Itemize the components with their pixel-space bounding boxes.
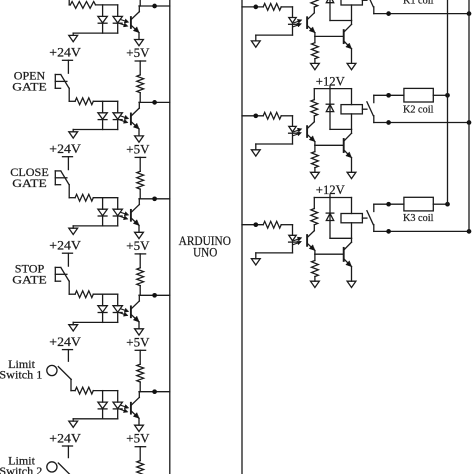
ground (stage 2 input) [72,130,74,132]
supply bus 2 [468,0,470,231]
wire switch-to-resistor (stage 4) [69,293,75,295]
wire arduino output (K3 driver) [242,224,263,226]
svg-text:Switch 1: Switch 1 [0,368,42,382]
wire resistor-to-optocoupler (stage 4) [93,293,117,295]
ground (stage 1 emitter) [135,40,144,46]
optocoupler LED (stage 5) [117,391,119,403]
svg-text:GATE: GATE [12,274,47,286]
wire contact top (K2) [374,94,404,96]
resistor collector load (K3) [313,198,315,209]
wire to optocoupler (K2) [281,115,292,117]
resistor 24V input (stage 5) [75,387,93,394]
ground (K1 transistor) [347,63,356,69]
wire LED return (stage 4) [73,321,118,323]
relay contact K1 [367,0,373,7]
pull-up resistor +5V (stage 3) [139,157,141,171]
optocoupler LED (K2) [292,116,294,126]
svg-text:GATE: GATE [12,178,47,190]
wire switch-to-resistor (stage 3) [69,197,75,199]
wire +12V rail (K3) [329,195,331,198]
wire emitter-to-base (K2) [315,144,344,146]
wire contact bottom (K3) [374,230,469,232]
wire resistor-to-optocoupler (stage 1) [96,4,118,6]
ground (K3 resistor) [311,281,320,287]
wire LED return (K2) [256,143,293,145]
flyback diode (K1) [329,0,331,21]
wire coil bottom rail (K2) [330,128,352,130]
pull-up resistor +5V (stage 6) [139,447,141,461]
svg-text:K1 coil: K1 coil [403,0,434,6]
pushbutton switch (stage 4) [67,253,69,266]
resistor base drive (K1) [263,4,281,11]
svg-text:K3 coil: K3 coil [403,212,434,224]
ground (K3 transistor) [347,281,356,287]
wire collector-to-arduino (stage 1) [139,5,170,7]
resistor base-emitter (K1) [314,36,316,42]
ground (K1 resistor) [311,63,320,69]
relay coil K3 (driver side) [351,198,353,214]
ground (K2 transistor) [347,172,356,178]
protection diode (stage 5) [102,391,104,403]
resistor base drive (K3) [263,221,281,228]
wire coil-to-bus1 (K2) [433,94,447,96]
svg-text:K2 coil: K2 coil [403,103,434,115]
svg-text:+5V: +5V [126,335,149,349]
protection diode (stage 4) [102,294,104,306]
resistor base-emitter (K3) [314,254,316,260]
transistor driver (K1) [343,30,345,43]
wire emitter-to-base (K1) [315,35,344,37]
pull-up resistor +5V (stage 5) [139,350,141,364]
svg-text:Switch 2: Switch 2 [0,464,42,474]
transistor driver (K2) [343,139,345,152]
resistor collector load (K2) [313,89,315,100]
svg-text:+5V: +5V [126,46,149,60]
protection diode (stage 3) [102,198,104,210]
node contact top (K2) [386,93,391,98]
ground (K2 resistor) [311,172,320,178]
node collector junction (stage 2) [152,100,157,105]
optocoupler phototransistor (stage 3) [130,210,132,221]
svg-text:+5V: +5V [126,239,149,253]
wire coil-to-bus1 (K3) [433,203,447,205]
mechanical link (K2 contact) [362,108,367,110]
wire LED return (stage 5) [73,418,118,420]
ground (stage 3 emitter) [135,232,144,238]
wire LED return (stage 1) [73,32,118,34]
relay contact K3 [367,211,373,225]
wire LED return (stage 2) [73,129,118,131]
wire contact top (K3) [374,203,404,205]
node arduino output (K2) [253,113,258,118]
ground (K3 LED) [255,253,257,259]
optocoupler LED (K3) [292,225,294,235]
wire resistor-to-optocoupler (stage 2) [93,100,117,102]
optocoupler phototransistor (K1) [306,17,308,28]
wire resistor-to-optocoupler (stage 5) [93,390,117,392]
pull-up resistor +5V (stage 2) [139,61,141,75]
optocoupler LED (stage 3) [117,198,119,210]
wire contact bottom (K1) [374,13,469,15]
node bus2 junction (K3) [467,229,472,234]
node contact bottom (K1) [386,11,391,16]
wire collector-to-arduino (stage 2) [139,101,170,103]
wire LED return (K3) [256,252,293,254]
wire emitter-to-base (K3) [315,253,344,255]
limit switch (stage 5) [67,350,69,362]
wire +12V rail (K2) [329,86,331,89]
wire coil bottom rail (K3) [330,237,352,239]
supply bus 1 [447,0,449,204]
relay coil K2 (load circuit) [404,88,433,102]
svg-text:+24V: +24V [49,431,81,445]
wire switch-to-resistor (stage 1) [69,4,70,6]
ground (stage 5 input) [72,419,74,421]
svg-text:+24V: +24V [49,335,81,349]
relay coil K2 (driver side) [351,89,353,105]
svg-text:+5V: +5V [126,142,149,156]
node collector junction (stage 3) [152,196,157,201]
optocoupler LED (stage 2) [117,101,119,113]
transistor driver (K3) [343,248,345,261]
ground (K2 LED) [255,144,257,150]
wire switch-to-resistor (stage 2) [69,100,75,102]
node bus2 junction (K2) [467,120,472,125]
node bus2 junction (K1) [467,11,472,16]
node collector junction (stage 5) [152,389,157,394]
resistor base-emitter (K2) [314,145,316,151]
mechanical link (K1 contact) [362,0,367,1]
wire contact bottom (K2) [374,122,469,124]
wire resistor-to-optocoupler (stage 3) [93,197,117,199]
resistor base drive (K2) [263,112,281,119]
resistor 24V input (stage 1) [70,2,95,9]
svg-text:GATE: GATE [12,82,47,94]
wire LED return (stage 3) [73,225,118,227]
node arduino output (K1) [253,5,258,10]
wire arduino output (K2 driver) [242,115,263,117]
ARDUINO UNO block [170,0,242,474]
resistor 24V input (stage 4) [75,291,93,298]
svg-text:+24V: +24V [49,142,81,156]
optocoupler phototransistor (stage 5) [130,403,132,414]
node bus1 junction (K2) [445,93,450,98]
svg-text:+5V: +5V [126,432,149,446]
resistor 24V input (stage 3) [75,194,93,201]
wire collector-to-arduino (stage 3) [139,198,170,200]
relay coil K3 (load circuit) [404,197,433,211]
svg-text:UNO: UNO [193,246,217,260]
wire to optocoupler (K3) [281,224,292,226]
node collector junction (stage 4) [152,293,157,298]
optocoupler phototransistor (stage 2) [130,114,132,125]
node contact bottom (K2) [386,120,391,125]
relay contact K2 [367,102,373,116]
wire collector-to-arduino (stage 4) [139,294,170,296]
limit switch (stage 6) [67,446,69,458]
wire collector-to-arduino (stage 5) [139,391,170,393]
ground (stage 2 emitter) [135,136,144,142]
optocoupler phototransistor (K2) [306,126,308,137]
flyback diode (K2) [329,89,331,130]
svg-text:+24V: +24V [49,239,81,253]
optocoupler phototransistor (stage 4) [130,306,132,317]
protection diode (stage 2) [102,101,104,113]
optocoupler LED (K1) [292,7,294,17]
mechanical link (K3 contact) [362,217,367,219]
ground (stage 5 emitter) [135,425,144,431]
wire LED return (K1) [256,34,293,36]
node contact top (K3) [386,202,391,207]
node collector junction (stage 1) [152,4,157,9]
wire coil bottom rail (K1) [330,20,352,22]
wire arduino output (K1 driver) [242,6,263,8]
ground (stage 1 input) [72,33,74,35]
ground (K1 LED) [255,35,257,41]
pull-up resistor +5V (stage 4) [139,254,141,268]
ground (stage 4 input) [72,322,74,324]
ground (stage 3 input) [72,226,74,228]
flyback diode (K3) [329,198,331,239]
optocoupler phototransistor (stage 1) [130,17,132,28]
node bus1 junction (K3) [445,202,450,207]
svg-text:+24V: +24V [49,46,81,60]
protection diode (stage 1) [102,5,104,17]
pushbutton switch (stage 3) [67,157,69,170]
optocoupler LED (stage 4) [117,294,119,306]
node arduino output (K3) [253,222,258,227]
wire switch-to-resistor (stage 5) [71,390,75,392]
optocoupler phototransistor (K3) [306,235,308,246]
optocoupler LED (stage 1) [117,5,119,17]
ground (stage 4 emitter) [135,329,144,335]
node contact bottom (K3) [386,229,391,234]
wire to optocoupler (K1) [281,6,292,8]
resistor 24V input (stage 2) [75,98,93,105]
pushbutton switch (stage 2) [67,60,69,73]
